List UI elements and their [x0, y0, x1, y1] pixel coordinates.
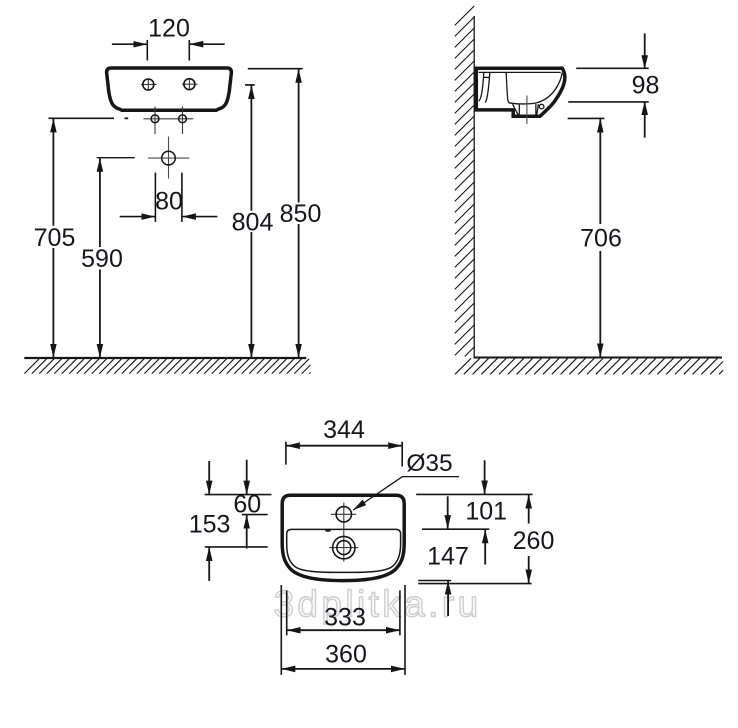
drain trap (side view): [513, 104, 539, 116]
svg-text:590: 590: [81, 245, 123, 273]
dimension 120: [146, 40, 148, 61]
svg-text:101: 101: [465, 498, 507, 526]
svg-text:98: 98: [632, 72, 660, 100]
dimension 344: [285, 442, 287, 465]
dimension 360: [280, 585, 282, 675]
drain centreline (side view): [526, 96, 528, 125]
svg-text:153: 153: [189, 510, 231, 538]
svg-text:260: 260: [513, 527, 555, 555]
dimension 60: [242, 514, 268, 516]
drain (plan): [329, 547, 358, 549]
dimension 101: [416, 493, 532, 495]
wall hatching (side view): [455, 6, 474, 357]
ground hatching (front view): [24, 359, 310, 374]
svg-text:3dplitka.ru: 3dplitka.ru: [273, 584, 481, 625]
svg-text:360: 360: [325, 641, 367, 669]
basin front view outline: [107, 68, 232, 110]
fixing holes centreline: [144, 118, 194, 120]
wall line (side view): [473, 16, 475, 358]
floor hatching (side view): [455, 358, 723, 374]
dimension 706: [568, 117, 605, 119]
tap hole right (front): [182, 79, 198, 90]
svg-text:705: 705: [34, 224, 76, 252]
overflow channel (side view): [479, 72, 490, 102]
dimension 705: [48, 117, 114, 119]
svg-text:Ø35: Ø35: [406, 450, 452, 477]
basin plan inner rim: [287, 529, 401, 572]
drain crosshair (front): [148, 137, 189, 179]
tap hole left (front): [141, 79, 157, 90]
dimension 98: [576, 67, 649, 69]
overflow hole (side view): [539, 104, 544, 109]
svg-text:706: 706: [580, 225, 622, 253]
basin side view inner rim: [479, 71, 561, 73]
ground line (front view): [24, 357, 306, 359]
fixing hole right: [182, 107, 184, 135]
dimension 850: [248, 68, 303, 70]
dimension 260: [418, 583, 531, 585]
dimension 804: [245, 84, 255, 86]
dimension 333: [286, 590, 288, 635]
tap hole (plan): [331, 503, 356, 562]
dimension 153: [205, 494, 272, 496]
dimension 80: [154, 173, 156, 222]
fixing hole left: [154, 107, 156, 135]
basin side view outline: [476, 68, 564, 116]
svg-text:804: 804: [232, 209, 274, 237]
dimension 147: [418, 580, 451, 582]
overflow mark (plan): [325, 529, 331, 532]
basin plan view outline: [282, 495, 404, 580]
dimension 590: [97, 157, 135, 159]
svg-text:344: 344: [323, 416, 365, 444]
svg-text:850: 850: [280, 200, 322, 228]
bowl section (side view): [506, 73, 562, 104]
svg-text:120: 120: [148, 15, 190, 43]
floor line (side view): [474, 356, 723, 358]
svg-text:80: 80: [155, 188, 183, 216]
svg-text:147: 147: [427, 543, 469, 571]
svg-text:333: 333: [324, 603, 366, 631]
